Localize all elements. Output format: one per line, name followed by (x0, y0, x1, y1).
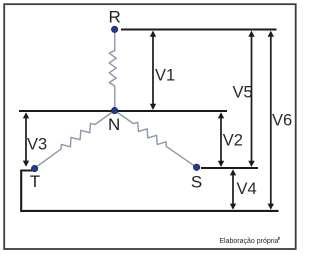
svg-text:N: N (108, 115, 120, 134)
arrow V1 (150, 31, 156, 110)
resistor N-S (diagonal winding) (115, 111, 197, 168)
svg-text:V4: V4 (237, 180, 257, 198)
wire: bottom bus with left vertical from T (21, 171, 278, 211)
arrow V6 (268, 31, 274, 210)
svg-text:V2: V2 (223, 132, 243, 150)
svg-text:V1: V1 (155, 67, 175, 85)
svg-text:R: R (109, 8, 121, 27)
resistor N-T (diagonal winding) (35, 111, 115, 169)
svg-text:V3: V3 (27, 136, 47, 154)
svg-text:S: S (191, 172, 202, 191)
arrow V3 (23, 112, 29, 167)
footnote tick (278, 237, 279, 240)
arrow V4 (230, 169, 236, 210)
arrow V2 (218, 112, 224, 167)
svg-text:Elaboração própria: Elaboração própria (219, 238, 278, 245)
svg-text:T: T (30, 172, 40, 191)
node T (31, 166, 37, 172)
node R (112, 26, 118, 32)
wire: S-level horizontal line (201, 167, 258, 169)
arrow V5 (248, 31, 254, 167)
svg-text:V6: V6 (272, 111, 292, 129)
node S (194, 164, 200, 170)
wire: neutral-level horizontal line through N (19, 110, 227, 112)
resistor R-N (vertical winding) (109, 29, 116, 110)
wire: top bus from R to right (121, 28, 277, 30)
svg-text:V5: V5 (233, 83, 253, 101)
node N (112, 108, 118, 114)
